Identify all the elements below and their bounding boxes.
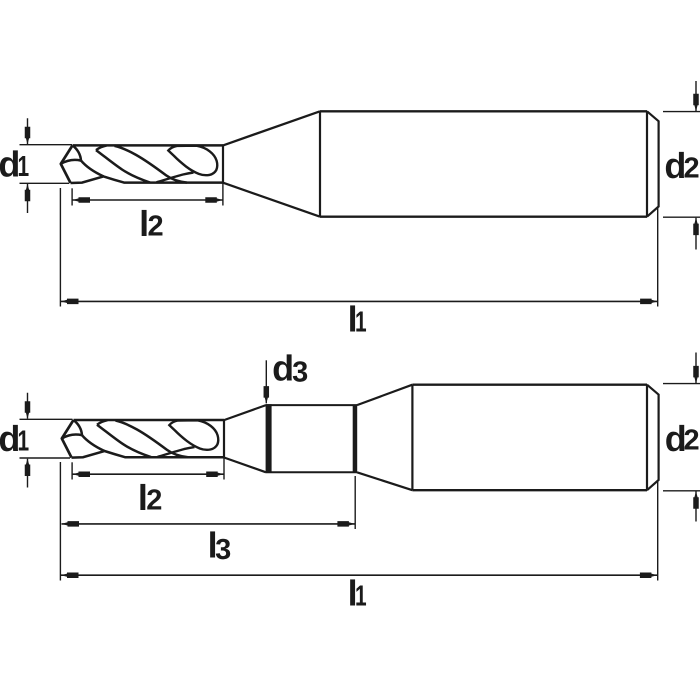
d1 arrowheads (bottom view) [25,401,31,419]
svg-text:2: 2 [684,425,700,457]
wire: cone bottom [223,183,320,217]
wire: l2 extension right (bottom view) [223,459,225,480]
wire: l2 extension right [222,183,224,206]
wire: l1 dimension line (bottom view) [61,574,657,576]
l3 arrowheads [62,521,80,527]
wire: l2 extension left [71,188,73,205]
svg-text:d: d [272,348,294,389]
wire: d2 extension bottom (bottom view) [663,490,700,492]
wire: shank end chamfer [647,385,659,491]
l1 arrowheads [61,299,79,305]
d2 arrowheads [693,94,699,112]
wire: shank top edge [320,110,647,112]
wire: l2 dimension line (bottom view) [73,473,224,475]
wire: d3 arrow tail [265,360,267,403]
svg-text:1: 1 [17,151,29,183]
svg-text:1: 1 [355,581,367,613]
wire: neck top edge [266,404,357,406]
svg-text:2: 2 [146,485,162,517]
l2 arrowheads [73,197,91,203]
svg-text:2: 2 [148,211,164,243]
svg-text:1: 1 [355,306,367,338]
d3 arrowhead [264,386,270,404]
wire: l3 dimension line [62,523,355,525]
svg-text:1: 1 [17,425,29,457]
wire: l1 extension right (bottom view) [657,481,659,581]
wire: l1 extension left [59,188,61,307]
wire: d1 extension bottom (bottom view) [20,457,71,459]
ring groove band 1 [266,404,272,473]
svg-text:2: 2 [684,153,700,185]
wire: shank end vertical [646,111,648,216]
wire: neck bottom edge [266,471,357,473]
drill flutes (top view) [61,145,223,183]
l1 arrowheads (bottom view) [61,572,79,578]
wire: d1 extension top (bottom view) [20,418,73,420]
svg-text:3: 3 [292,356,308,388]
wire: l2 dimension line [73,199,223,201]
wire: l3 extension right [354,476,356,529]
wire: l1 extension right [657,208,659,307]
d1 arrowheads [25,127,31,145]
wire: shank end chamfer [647,111,659,216]
wire: d2 arrow tails [695,81,697,250]
wire: d2 extension bottom [663,216,700,218]
wire: shank bottom edge [412,489,647,491]
wire: shank cone top [357,385,412,405]
wire: d2 arrow tails (bottom view) [695,353,697,522]
wire: l1 dimension line [61,300,658,302]
wire: l2 extension left (bottom view) [71,462,73,479]
wire: l1 l3 extension left (bottom view) [59,462,61,581]
wire: cone top [223,111,320,145]
ring groove band 2 [353,405,358,472]
d2 arrowheads (bottom view) [693,366,699,384]
wire: shank start vertical [319,111,321,216]
wire: d2 extension top [663,111,700,113]
wire: neck cone top [224,405,266,420]
l2 arrowheads (bottom view) [73,471,91,477]
wire: shank bottom edge [320,215,647,217]
wire: d1 extension bottom [20,182,70,184]
wire: shank end vertical [646,385,648,491]
drill flutes (bottom view) [62,420,224,458]
wire: d1 arrow tails [27,118,29,213]
wire: d1 arrow tails (bottom view) [27,393,29,488]
wire: shank top edge [412,384,647,386]
wire: d2 extension top (bottom view) [663,383,700,385]
wire: d1 extension top [20,144,73,146]
wire: shank cone bottom [357,472,412,490]
wire: neck cone bottom [224,458,266,473]
svg-text:3: 3 [215,534,231,566]
wire: shank start vertical [411,385,413,491]
